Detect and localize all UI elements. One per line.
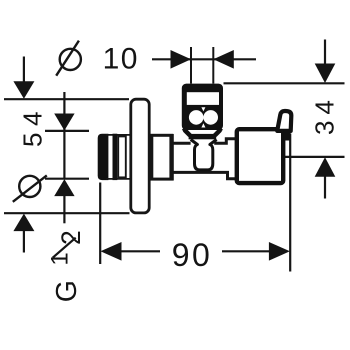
dim Ø10 line: [152, 58, 256, 60]
dim Ø54 extension line bottom: [4, 212, 130, 214]
svg-text:1: 1: [47, 252, 74, 265]
dim 34 arrowhead top: [315, 64, 336, 84]
dim 34 arrowhead bottom: [315, 157, 336, 177]
dim G1/2 tick bottom: [45, 178, 89, 180]
dim 34 arrow stem top: [324, 40, 326, 65]
valve: thread bottom edge: [106, 178, 130, 180]
valve: capsule with neck: [191, 140, 217, 170]
svg-text:90: 90: [172, 237, 213, 273]
dim G1/2 line: [63, 92, 65, 179]
valve: thread cap: [98, 134, 109, 180]
valve: nut right thick edge: [169, 134, 173, 181]
valve: head window: [187, 92, 219, 105]
dim 90 arrowhead right: [269, 242, 290, 261]
svg-text:G: G: [51, 280, 83, 302]
dim 90 extension line right: [289, 134, 291, 272]
dim G1/2 arrow stem bottom: [63, 194, 65, 223]
dim Ø54 arrowhead top: [13, 81, 34, 99]
dim Ø10 extension line left: [190, 47, 192, 84]
dim 90 line right segment: [222, 250, 272, 252]
dim G1/2 arrowhead top: [54, 114, 74, 131]
dim Ø10 arrowhead right: [213, 50, 234, 69]
valve: flange: [131, 99, 149, 213]
valve: head circle left: [189, 110, 204, 125]
valve: outlet block: [237, 129, 283, 183]
dim Ø54 arrowhead bottom: [13, 214, 34, 232]
valve: head wedge bottom: [201, 123, 205, 127]
dim Ø10 extension line right: [212, 47, 214, 84]
valve: lever tab: [277, 111, 291, 131]
valve: head taper right: [215, 128, 222, 135]
valve: thread stripe: [113, 134, 118, 180]
valve: cartridge bar: [189, 134, 217, 139]
dim Ø54 arrow stem top: [23, 57, 25, 84]
valve: head wedge top: [201, 107, 205, 111]
svg-text:10: 10: [103, 42, 139, 75]
valve: head body: [182, 84, 223, 130]
valve: tube top edge right segment with step: [214, 139, 236, 144]
dim Ø54 arrow stem bottom: [23, 230, 25, 253]
valve: tube top edge left segment: [173, 142, 191, 145]
svg-text:34: 34: [310, 94, 340, 135]
dim 34 arrow stem bottom: [324, 176, 326, 199]
valve: head taper left: [183, 128, 190, 135]
dim G1/2 tick top: [45, 130, 89, 132]
dim 90 line left segment: [118, 250, 160, 252]
valve: lever/block corner patch: [283, 130, 291, 141]
dim 90 extension line left: [99, 183, 101, 265]
svg-text:54: 54: [17, 105, 47, 147]
valve: thread top edge: [106, 134, 130, 136]
valve: thread box: [118, 136, 126, 177]
valve: tube bottom edge with step: [173, 172, 236, 178]
dim Ø10 arrowhead left: [171, 50, 192, 69]
dim 90 arrowhead left: [101, 242, 122, 261]
dim G1/2 arrowhead bottom: [54, 179, 74, 196]
valve: bar hook left: [184, 130, 190, 135]
dim 34 extension line top: [224, 82, 345, 84]
dim Ø54 extension line top: [4, 98, 129, 100]
valve: head circle right: [203, 110, 218, 125]
valve: nut section: [152, 135, 172, 179]
dim 34 extension line bottom: [284, 156, 345, 158]
label 1/2 fraction slash: [53, 238, 76, 258]
valve: bar hook right: [215, 130, 221, 135]
label Ø10 diameter symbol: [56, 41, 81, 76]
label Ø54 diameter symbol: [13, 175, 47, 201]
